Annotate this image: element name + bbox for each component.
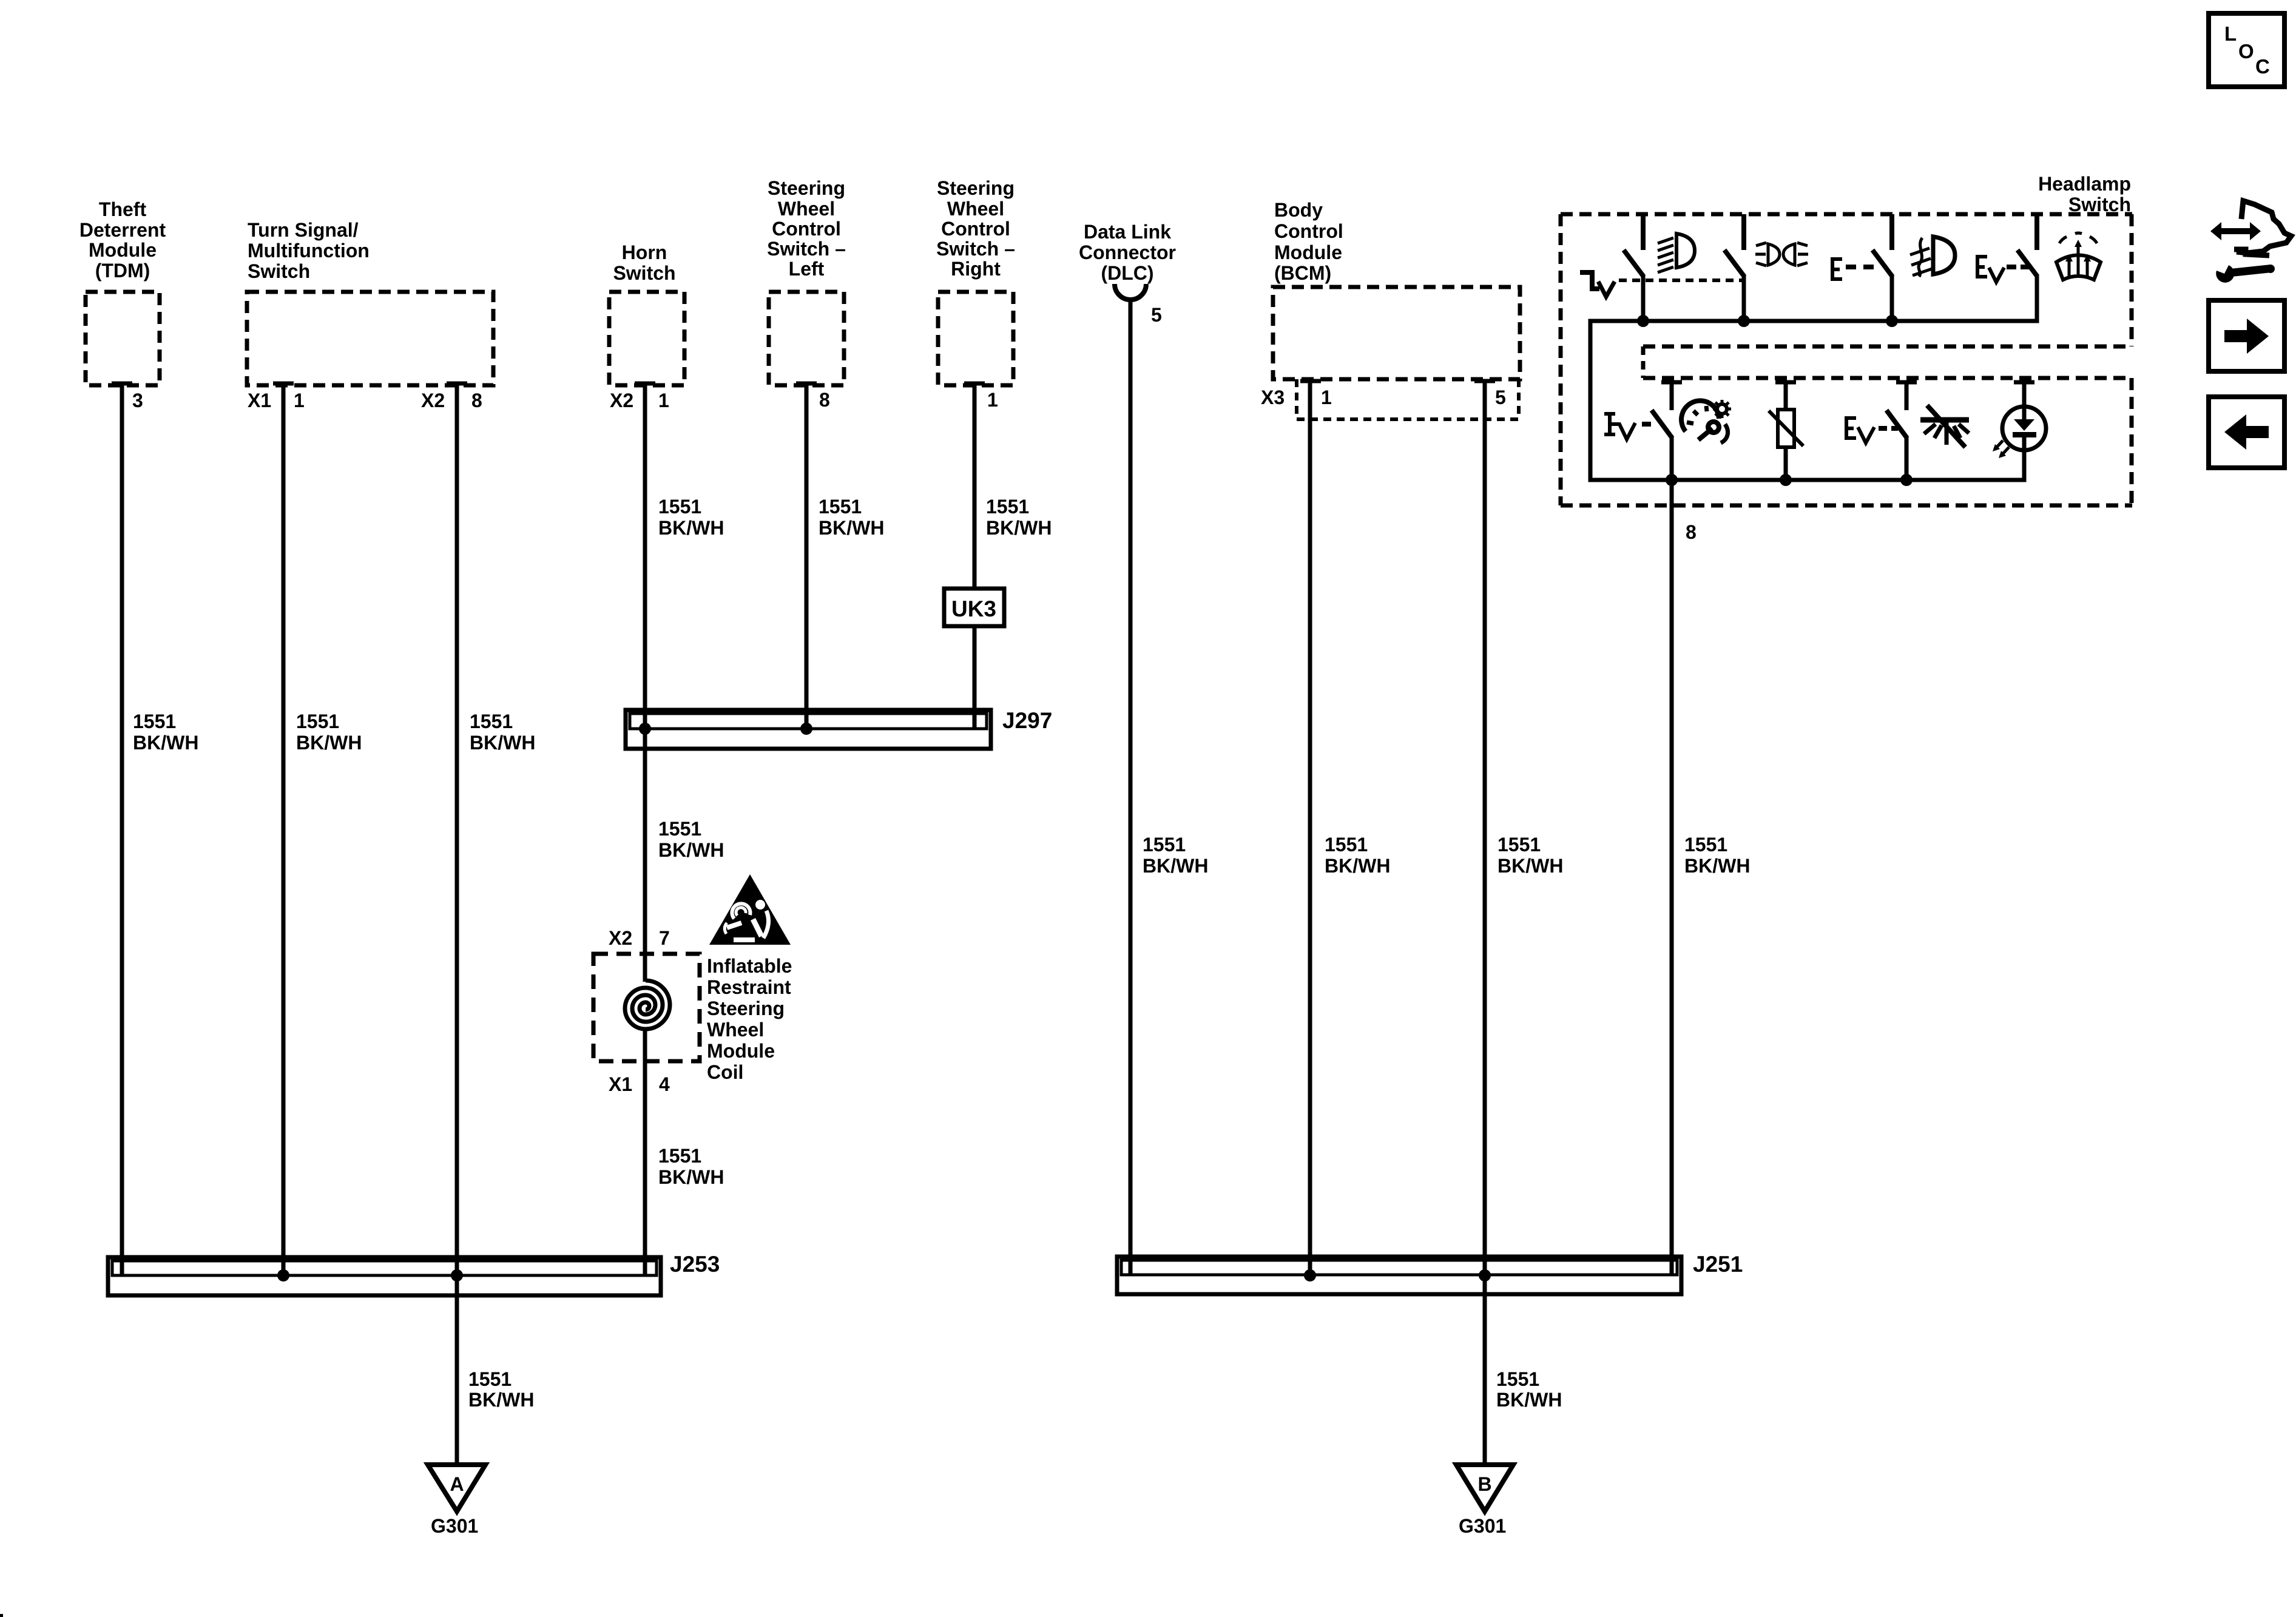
headlamp switch outer dashed box — [1561, 214, 2132, 505]
svg-text:Steering: Steering — [707, 998, 785, 1019]
ground B triangle — [1456, 1465, 1513, 1511]
svg-text:Left: Left — [789, 258, 825, 280]
splice J253 — [108, 1252, 720, 1295]
svg-text:1551: 1551 — [1684, 834, 1727, 856]
warning triangle (SIR caution) — [709, 874, 791, 945]
wire SWC left pin 8 to J297 — [796, 382, 817, 386]
svg-text:Restraint: Restraint — [707, 976, 791, 998]
wire turn signal X1 pin 1 to J253 — [273, 382, 294, 386]
svg-text:1551: 1551 — [133, 711, 176, 732]
module TDM (Theft Deterrent Module) — [79, 198, 166, 385]
svg-text:BK/WH: BK/WH — [296, 732, 362, 754]
splice J251 — [1117, 1252, 1743, 1294]
svg-text:Control: Control — [1274, 220, 1343, 242]
icon arrow left box — [2209, 397, 2284, 468]
switch 2 park lamps (stub, blade, wire) — [1724, 214, 1744, 321]
svg-text:G301: G301 — [1459, 1515, 1506, 1537]
wire label 1551 BK/WH (X2-8 wire) — [470, 711, 535, 754]
svg-text:1551: 1551 — [1143, 834, 1186, 856]
svg-text:(DLC): (DLC) — [1101, 262, 1153, 284]
svg-text:1: 1 — [987, 389, 998, 411]
svg-text:1551: 1551 — [986, 496, 1029, 518]
wire label 1551 BK/WH (SWC left wire) — [819, 496, 884, 539]
svg-text:Steering: Steering — [768, 177, 845, 199]
switch 5 panel dimmer (T-stub, blade, wire to pin 8) — [1652, 382, 1682, 1275]
mechanical link dotted line (top row) — [1619, 279, 1743, 282]
svg-text:1551: 1551 — [296, 711, 339, 732]
junction dot (switch 1 on upper bus) — [1637, 315, 1649, 327]
svg-text:1551: 1551 — [819, 496, 862, 518]
svg-text:Turn Signal/: Turn Signal/ — [248, 219, 359, 241]
module Turn Signal/Multifunction Switch — [247, 219, 493, 385]
svg-text:8: 8 — [471, 390, 482, 411]
svg-text:1: 1 — [294, 390, 305, 411]
svg-text:Inflatable: Inflatable — [707, 955, 792, 977]
svg-text:BK/WH: BK/WH — [1496, 1389, 1562, 1411]
wire label 1551 BK/WH (headlamp pin 8 wire) — [1684, 834, 1750, 877]
fuse UK3 — [944, 589, 1004, 626]
svg-text:Switch –: Switch – — [767, 238, 846, 260]
svg-text:1: 1 — [1321, 387, 1332, 408]
svg-text:1551: 1551 — [658, 818, 701, 840]
svg-text:Wheel: Wheel — [707, 1019, 764, 1041]
svg-text:J297: J297 — [1002, 708, 1052, 733]
svg-text:BK/WH: BK/WH — [1684, 855, 1750, 877]
page corner dot — [0, 1614, 3, 1617]
svg-text:BK/WH: BK/WH — [1143, 855, 1208, 877]
wire label 1551 BK/WH (above ground A) — [468, 1368, 534, 1411]
icon position Ev- — [1976, 255, 2030, 282]
wire BCM X3 pin 1 to J251 — [1300, 381, 1321, 1275]
svg-text:Headlamp: Headlamp — [2038, 173, 2131, 195]
svg-text:8: 8 — [819, 389, 830, 411]
svg-text:Switch: Switch — [248, 260, 310, 282]
junction dot (switch 5 on lower bus) — [1666, 474, 1678, 486]
svg-text:Theft: Theft — [99, 198, 147, 220]
switch 4 rear defog (stub, blade) — [2017, 214, 2038, 277]
svg-text:X2: X2 — [609, 927, 632, 949]
svg-text:A: A — [450, 1473, 464, 1495]
svg-text:1551: 1551 — [470, 711, 513, 732]
switch 3 (stub, blade, wire) — [1872, 214, 1893, 321]
icon panel dimmer gauge — [1681, 400, 1731, 443]
svg-text:1551: 1551 — [1497, 834, 1541, 856]
svg-text:BK/WH: BK/WH — [468, 1389, 534, 1411]
svg-text:BK/WH: BK/WH — [986, 517, 1052, 539]
svg-text:Multifunction: Multifunction — [248, 240, 370, 262]
connector DLC (Data Link Connector) — [1079, 221, 1176, 300]
wire DLC pin 5 to J251 — [1129, 300, 1133, 1275]
svg-text:BK/WH: BK/WH — [1325, 855, 1390, 877]
wire label 1551 BK/WH (BCM pin 5 wire) — [1497, 834, 1563, 877]
svg-text:Deterrent: Deterrent — [79, 219, 166, 241]
svg-text:1551: 1551 — [468, 1368, 512, 1390]
module Steering Wheel Control Switch - Right — [936, 177, 1015, 385]
wire label 1551 BK/WH (below coil) — [658, 1145, 724, 1188]
junction dot (switch 6 on lower bus) — [1900, 474, 1913, 486]
icon position Fv-- — [1604, 414, 1651, 439]
svg-text:L: L — [2224, 22, 2237, 45]
icon rear window defog — [2056, 233, 2101, 280]
headlamp switch inner dashed connector (left) — [1641, 346, 1646, 378]
svg-text:BK/WH: BK/WH — [470, 732, 535, 754]
icon fog lamp — [1910, 237, 1955, 277]
wire label 1551 BK/WH (TDM wire) — [133, 711, 198, 754]
module Steering Wheel Control Switch - Left — [767, 177, 846, 385]
LOC reference box — [2209, 13, 2284, 87]
ground A triangle — [428, 1465, 485, 1511]
svg-text:Wheel: Wheel — [947, 198, 1004, 220]
LED ambient light sensor — [1993, 382, 2046, 458]
junction dot (rheostat on lower bus) — [1780, 474, 1792, 486]
svg-text:Right: Right — [951, 258, 1001, 280]
svg-text:BK/WH: BK/WH — [658, 517, 724, 539]
switch 1 headlamp (stub, blade, wire) — [1624, 214, 1644, 321]
icon park lamps — [1755, 243, 1808, 266]
pin X1 4 labels (coil) — [609, 1073, 670, 1095]
svg-text:B: B — [1477, 1473, 1491, 1495]
svg-text:J253: J253 — [670, 1252, 720, 1277]
svg-text:8: 8 — [1686, 521, 1697, 543]
svg-text:BK/WH: BK/WH — [658, 1166, 724, 1188]
svg-text:1: 1 — [658, 390, 669, 411]
svg-text:1551: 1551 — [658, 1145, 701, 1167]
wire coil X1 pin 4 to J253 — [643, 1028, 647, 1275]
svg-text:5: 5 — [1151, 304, 1162, 326]
svg-text:7: 7 — [659, 927, 670, 949]
icon off-position lever (Tv) — [1580, 272, 1615, 297]
svg-text:Switch: Switch — [613, 262, 675, 284]
headlamp switch inner dashed divider B — [1643, 376, 2132, 380]
svg-text:Connector: Connector — [1079, 241, 1176, 263]
junction dot (X1-1 wire on J253) — [277, 1269, 289, 1281]
svg-text:BK/WH: BK/WH — [819, 517, 884, 539]
module Horn Switch — [609, 241, 684, 385]
wire BCM X3 pin 5 to J251 and ground B — [1474, 381, 1495, 1465]
upper bus and left drop of headlamp switch — [1590, 276, 2037, 480]
svg-text:BK/WH: BK/WH — [1497, 855, 1563, 877]
icon position Ev-- — [1845, 416, 1898, 443]
svg-text:5: 5 — [1495, 387, 1506, 408]
svg-text:X1: X1 — [248, 390, 271, 411]
icon low beam headlamp — [1658, 234, 1695, 272]
wire label 1551 BK/WH (BCM pin 1 wire) — [1325, 834, 1390, 877]
svg-text:Steering: Steering — [937, 177, 1015, 199]
wire label 1551 BK/WH (SWC right wire) — [986, 496, 1052, 539]
svg-text:X3: X3 — [1261, 387, 1285, 408]
wire label 1551 BK/WH (X1-1 wire) — [296, 711, 362, 754]
pin X1 1 labels — [248, 390, 305, 411]
svg-text:(BCM): (BCM) — [1274, 262, 1331, 284]
svg-text:Body: Body — [1274, 199, 1323, 221]
connector X3 sub-box of BCM — [1297, 379, 1519, 419]
junction dot (SWC left wire on J297) — [800, 723, 812, 735]
junction dot (horn wire on J297) — [639, 723, 651, 735]
svg-text:BK/WH: BK/WH — [658, 839, 724, 861]
module Headlamp Switch label — [2038, 173, 2131, 215]
wire SWC right pin 1 to UK3 — [964, 382, 985, 386]
svg-text:1551: 1551 — [1325, 834, 1368, 856]
icon arrow right box — [2209, 300, 2284, 371]
component Inflatable Restraint Steering Wheel Module Coil — [593, 954, 700, 1061]
svg-text:X1: X1 — [609, 1073, 632, 1095]
splice J297 — [626, 708, 1052, 749]
svg-text:Coil: Coil — [707, 1061, 743, 1083]
icon dome lamp off (crossed) — [1920, 405, 1969, 447]
svg-text:G301: G301 — [431, 1515, 478, 1537]
pin X2 1 labels (horn) — [610, 390, 669, 411]
svg-text:4: 4 — [659, 1073, 670, 1095]
junction dot (X2-8 wire on J253) — [451, 1269, 463, 1281]
junction dot (BCM pin 1 wire on J251) — [1304, 1269, 1316, 1281]
svg-text:Module: Module — [1274, 241, 1342, 263]
svg-text:X2: X2 — [610, 390, 633, 411]
svg-text:(TDM): (TDM) — [95, 260, 150, 282]
wire label 1551 BK/WH (horn wire) — [658, 496, 724, 539]
headlamp switch inner dashed divider A — [1643, 345, 2132, 349]
wire turn signal X2 pin 8 to J253 and ground A — [447, 382, 467, 386]
switch 6 (T-stub, blade, wire) — [1886, 382, 1917, 480]
svg-text:1551: 1551 — [658, 496, 701, 518]
wire label 1551 BK/WH (above ground B) — [1496, 1368, 1562, 1411]
junction dot (BCM pin 5 wire on J251) — [1479, 1269, 1491, 1281]
svg-text:X2: X2 — [421, 390, 445, 411]
svg-text:Switch –: Switch – — [936, 238, 1015, 260]
wire horn J297 to coil — [643, 729, 647, 982]
junction dot (switch 3 on upper bus) — [1886, 315, 1898, 327]
wire label 1551 BK/WH (DLC wire) — [1143, 834, 1208, 877]
svg-text:Control: Control — [772, 218, 841, 240]
svg-text:J251: J251 — [1693, 1252, 1743, 1277]
junction dot (switch 2 on upper bus) — [1738, 315, 1750, 327]
svg-text:Data Link: Data Link — [1084, 221, 1171, 243]
wire label 1551 BK/WH (below J297) — [658, 818, 724, 861]
svg-text:UK3: UK3 — [951, 596, 996, 621]
svg-text:O: O — [2238, 40, 2254, 62]
icon diagnostic wrench with arrows — [2210, 201, 2291, 283]
svg-text:Horn: Horn — [622, 241, 667, 263]
label Inflatable Restraint Steering Wheel Module Coil — [707, 955, 792, 1083]
wire TDM pin 3 to J253 — [112, 382, 132, 386]
svg-text:BK/WH: BK/WH — [133, 732, 198, 754]
svg-text:C: C — [2255, 55, 2270, 78]
svg-text:Wheel: Wheel — [778, 198, 835, 220]
module BCM (Body Control Module) — [1273, 199, 1520, 379]
svg-text:Module: Module — [89, 239, 157, 261]
svg-text:1551: 1551 — [1496, 1368, 1539, 1390]
icon position E-- — [1831, 257, 1874, 281]
svg-text:Module: Module — [707, 1040, 775, 1062]
wire UK3 to J297 — [973, 626, 977, 729]
rheostat (T-stub, resistor, diagonal, wire) — [1769, 382, 1803, 480]
pin X2 8 labels — [421, 390, 482, 411]
svg-text:Control: Control — [941, 218, 1010, 240]
svg-text:3: 3 — [132, 390, 143, 411]
wire horn switch X2 pin 1 to J297 — [635, 382, 655, 386]
pin X2 7 labels (coil) — [609, 927, 670, 949]
